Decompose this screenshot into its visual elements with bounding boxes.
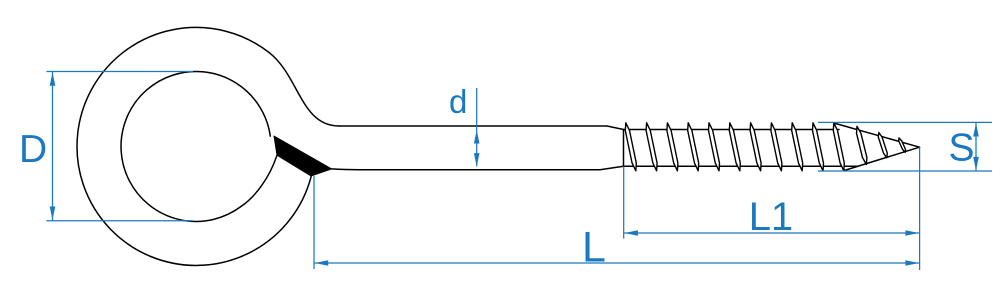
S dimension line [975, 122, 977, 171]
thread crest 11 [833, 123, 844, 171]
thread start vertical edge [623, 130, 625, 167]
L1 dimension line [624, 232, 920, 234]
d arrow down [474, 153, 480, 167]
svg-text:L1: L1 [749, 195, 794, 239]
d dimension stem [476, 88, 478, 166]
S arrow up [973, 123, 979, 137]
svg-text:S: S [949, 126, 975, 169]
thread crest 10 [813, 123, 824, 171]
D bottom extension line [46, 220, 193, 222]
L arrow right [905, 260, 919, 266]
S bottom extension line [818, 170, 992, 172]
L1 arrow left [624, 230, 638, 236]
thread crest 4 [688, 123, 699, 171]
L dimension line [314, 262, 920, 264]
thread crest 5 [709, 123, 720, 171]
eye inner circle arc [121, 71, 270, 221]
d arrow up [474, 130, 480, 144]
cone crest 14 [899, 138, 906, 152]
svg-text:d: d [449, 83, 467, 120]
L1 arrow right [905, 230, 919, 236]
thread root bottom line [624, 165, 859, 167]
S arrow down [973, 157, 979, 171]
cone crest 12 [857, 126, 867, 164]
thread crest 9 [792, 123, 803, 171]
eye outer circle arc [77, 27, 311, 265]
D top extension line [46, 71, 193, 73]
thread crest 2 [646, 123, 657, 171]
shank top S-curve from eye [269, 53, 339, 126]
svg-text:D: D [19, 128, 47, 171]
D dim arrow down [50, 207, 56, 221]
cone crest 13 [878, 133, 887, 158]
svg-text:L: L [582, 223, 606, 271]
D dim arrow up [50, 72, 56, 86]
tip extension line [919, 147, 921, 270]
thread crest 7 [750, 123, 761, 171]
thread crest 6 [729, 123, 740, 171]
eye wire end black wedge [274, 136, 332, 176]
D dimension line [52, 72, 54, 221]
shank top line [339, 126, 624, 130]
thread crest 8 [771, 123, 782, 171]
thread root top line [624, 129, 840, 131]
screw tip cone bottom edge [844, 147, 920, 170]
thread crest 1 [625, 123, 636, 171]
screw tip cone top edge [834, 123, 920, 147]
shank bottom line [332, 166, 624, 169]
inner helix curve to wedge [241, 155, 277, 206]
L left extension line [313, 176, 315, 269]
L arrow left [315, 260, 329, 266]
L1 left extension line [623, 166, 625, 238]
S top extension line [818, 121, 992, 123]
thread crest 3 [667, 123, 678, 171]
